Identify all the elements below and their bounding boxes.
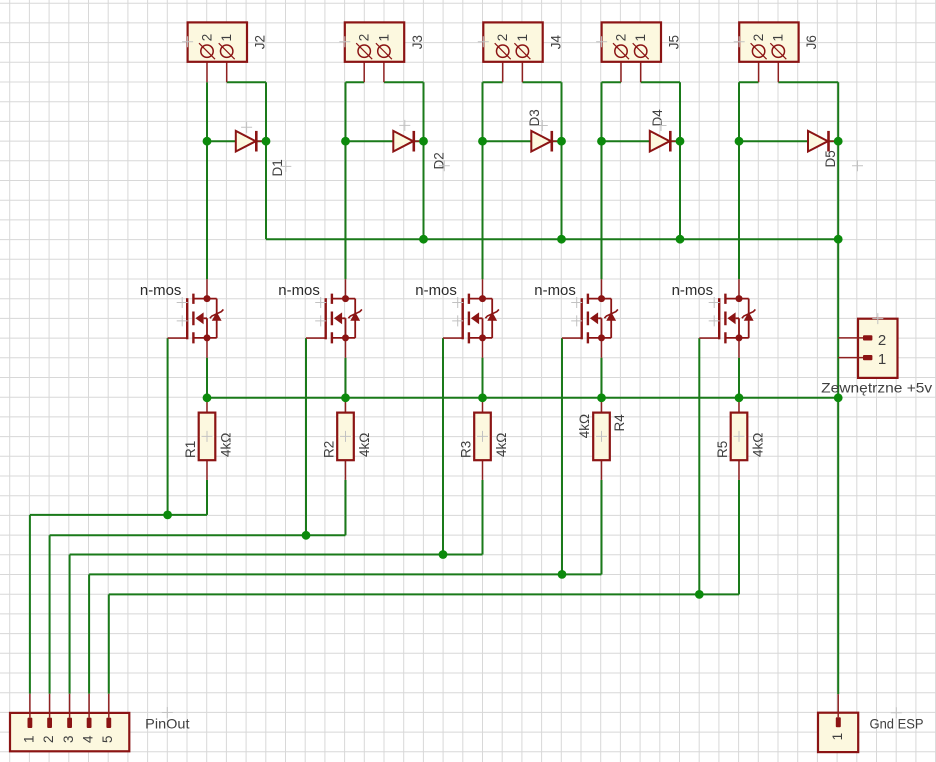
origin cross D3: [537, 120, 548, 131]
svg-text:J4: J4: [548, 35, 563, 50]
cross Q1: [177, 315, 188, 326]
origin cross PinOut: [162, 707, 173, 718]
wire J5 pin1 jog: [641, 81, 680, 83]
pin stub MOSFET source ckt D5: [738, 338, 740, 358]
svg-text:D4: D4: [650, 109, 665, 127]
wire MOSFET source to R5: [738, 358, 740, 398]
svg-text:4kΩ: 4kΩ: [494, 433, 509, 457]
wire J5 pin2 jog: [602, 81, 622, 83]
pin stub R2 top: [345, 398, 347, 413]
junction source/R3: [478, 393, 487, 402]
origin cross R5: [734, 431, 745, 442]
wire J6 pin2 jog: [739, 81, 759, 83]
diode D3: [531, 131, 561, 152]
pin stub R4 bottom: [601, 460, 603, 480]
junction D3 anode: [478, 137, 487, 146]
wire D5 anode row: [739, 140, 838, 142]
svg-text:R5: R5: [715, 441, 730, 458]
pin stub MOSFET source ckt D2: [345, 338, 347, 358]
wire J4 pin2 jog: [483, 81, 503, 83]
origin cross R4: [596, 431, 607, 442]
svg-text:D5: D5: [823, 150, 838, 167]
origin cross Gnd ESP: [891, 707, 902, 718]
wire gate net horizontal to PinOut: [30, 514, 207, 516]
resistor R2 4kΩ: [337, 413, 354, 461]
svg-text:4: 4: [81, 735, 96, 743]
connector PinOut: [10, 713, 129, 751]
svg-text:Zewnętrzne +5v: Zewnętrzne +5v: [821, 380, 932, 396]
junction gate net ckt R2: [302, 531, 311, 540]
svg-text:4kΩ: 4kΩ: [219, 433, 234, 457]
svg-text:2: 2: [495, 34, 510, 42]
origin cross Q3: [452, 297, 463, 308]
origin cross J4: [478, 36, 489, 47]
pin stub MOSFET gate ckt D4: [562, 337, 582, 339]
svg-text:1: 1: [21, 735, 36, 743]
junction D5 anode: [735, 137, 744, 146]
pin stub R1 top: [206, 398, 208, 413]
wire +5v bus: [266, 238, 838, 240]
wire MOSFET gate vertical: [442, 338, 444, 554]
wire R2 bottom vertical: [345, 480, 347, 535]
pin stub J4-1: [521, 62, 523, 82]
wire D1 cathode vertical to +5v bus: [265, 82, 267, 239]
origin cross R1: [202, 431, 213, 442]
cross Q5: [709, 315, 720, 326]
pin stub PinOut 3: [69, 694, 71, 718]
junction D4 anode: [597, 137, 606, 146]
terminal block J5: [602, 22, 661, 61]
svg-text:n-mos: n-mos: [140, 282, 182, 299]
terminal block J2: [188, 22, 247, 61]
svg-text:n-mos: n-mos: [534, 282, 576, 299]
pin stub MOSFET source ckt D4: [601, 338, 603, 358]
wire source rail to Zewnetrzne +5v: [207, 397, 838, 399]
pin stub J3-1: [383, 62, 385, 82]
pin stub MOSFET drain ckt D4: [601, 279, 603, 298]
wire MOSFET source to R3: [482, 358, 484, 398]
origin cross J5: [596, 36, 607, 47]
svg-text:1: 1: [830, 733, 845, 741]
terminal block J3: [345, 22, 404, 61]
svg-text:1: 1: [376, 34, 391, 42]
transistor Q4 n-mos: [582, 294, 618, 344]
resistor R4 4kΩ: [593, 413, 610, 461]
svg-text:R3: R3: [459, 441, 474, 458]
junction D2 anode: [341, 137, 350, 146]
pin stub J2-2: [206, 62, 208, 82]
connector Zewnetrzne +5v: [838, 319, 897, 378]
wire D2 anode row: [346, 140, 424, 142]
svg-text:n-mos: n-mos: [415, 282, 457, 299]
transistor Q1 n-mos: [187, 294, 223, 344]
origin cross D1: [241, 122, 252, 133]
origin cross D2: [399, 120, 410, 131]
pin stub MOSFET gate ckt D3: [443, 337, 463, 339]
pin stub MOSFET drain ckt D5: [738, 279, 740, 298]
junction D1 cathode: [262, 137, 271, 146]
wire MOSFET gate vertical: [561, 338, 563, 574]
junction bus D3: [557, 235, 566, 244]
junction source/R4: [597, 393, 606, 402]
wire J6 pin2 to D5 anode / MOSFET drain: [738, 82, 740, 279]
wire R5 bottom vertical: [738, 480, 740, 595]
wire J2 pin2 to D1 anode / MOSFET drain: [206, 82, 208, 279]
wire PinOut riser: [88, 574, 90, 693]
pin stub MOSFET source ckt D3: [482, 338, 484, 358]
pin stub R3 bottom: [482, 460, 484, 480]
diode D1: [236, 131, 266, 152]
pin stub J6-1: [777, 62, 779, 82]
svg-text:3: 3: [61, 735, 76, 743]
wire MOSFET source to R1: [206, 358, 208, 398]
svg-text:4kΩ: 4kΩ: [357, 433, 372, 457]
junction gate net ckt R1: [163, 511, 172, 520]
pin stub MOSFET drain ckt D2: [345, 279, 347, 298]
cross Q2: [315, 315, 326, 326]
wire gate net horizontal to PinOut: [109, 593, 739, 595]
pin stub R4 top: [601, 398, 603, 413]
origin cross J6: [734, 36, 745, 47]
resistor R5 4kΩ: [731, 413, 748, 461]
junction D5 cathode: [834, 137, 843, 146]
transistor Q3 n-mos: [463, 294, 499, 344]
wire J3 pin2 to D2 anode / MOSFET drain: [345, 82, 347, 279]
wire D4 cathode vertical to +5v bus: [679, 82, 681, 239]
wire J3 pin1 jog: [384, 81, 424, 83]
svg-text:D3: D3: [527, 109, 542, 126]
pin stub J6-2: [758, 62, 760, 82]
pin stub R5 bottom: [738, 460, 740, 480]
pin stub MOSFET gate ckt D5: [699, 337, 719, 339]
svg-text:1: 1: [219, 34, 234, 42]
svg-text:1: 1: [515, 34, 530, 42]
origin cross +5v connector: [872, 313, 883, 324]
svg-text:2: 2: [878, 332, 886, 349]
wire J4 pin1 jog: [522, 81, 561, 83]
junction bus D5: [834, 235, 843, 244]
resistor R3 4kΩ: [474, 413, 491, 461]
pin stub J5-1: [640, 62, 642, 82]
pin stub Gnd ESP: [837, 694, 839, 717]
transistor Q2 n-mos: [326, 294, 362, 344]
origin cross Q5: [709, 297, 720, 308]
svg-text:4kΩ: 4kΩ: [751, 433, 766, 457]
wire J5 pin2 to D4 anode / MOSFET drain: [601, 82, 603, 279]
origin cross J2: [182, 36, 193, 47]
svg-text:D1: D1: [270, 159, 285, 176]
junction bus D4: [676, 235, 685, 244]
pin stub R2 bottom: [345, 460, 347, 480]
wire MOSFET source to R2: [345, 358, 347, 398]
wire MOSFET source to R4: [601, 358, 603, 398]
origin cross J3: [339, 36, 350, 47]
junction source/R5: [735, 393, 744, 402]
wire MOSFET gate vertical: [698, 338, 700, 594]
origin cross Q4: [571, 297, 582, 308]
cross Q4: [571, 315, 582, 326]
origin cross Q2: [315, 297, 326, 308]
wire D4 anode row: [602, 140, 681, 142]
svg-text:2: 2: [199, 34, 214, 42]
diode D5: [808, 131, 838, 152]
value cross D2: [439, 160, 450, 171]
wire R1 bottom vertical: [206, 480, 208, 515]
wire right vertical bus to Gnd ESP: [837, 239, 839, 694]
junction source/R1: [203, 393, 212, 402]
junction bus D2: [419, 235, 428, 244]
junction D1 anode: [203, 137, 212, 146]
terminal block J4: [483, 22, 542, 61]
svg-text:5: 5: [100, 735, 115, 743]
pin stub MOSFET drain ckt D1: [206, 279, 208, 298]
pin stub MOSFET source ckt D1: [206, 338, 208, 358]
wire D2 cathode vertical to +5v bus: [423, 82, 425, 239]
wire J6 pin1 jog: [778, 81, 838, 83]
wire D3 anode row: [483, 140, 562, 142]
value cross D5: [852, 160, 863, 171]
value cross D1: [280, 161, 291, 172]
origin cross Q1: [177, 297, 188, 308]
pin stub MOSFET gate ckt D1: [168, 337, 188, 339]
terminal block J6: [739, 22, 798, 61]
svg-text:n-mos: n-mos: [278, 282, 320, 299]
svg-text:n-mos: n-mos: [672, 282, 714, 299]
svg-text:R1: R1: [183, 441, 198, 458]
wire R3 bottom vertical: [482, 480, 484, 555]
origin cross R2: [340, 431, 351, 442]
wire PinOut riser: [49, 535, 51, 694]
junction D4 cathode: [676, 137, 685, 146]
wire D3 cathode vertical to +5v bus: [561, 82, 563, 239]
pin stub PinOut 1: [29, 694, 31, 718]
svg-text:1: 1: [878, 351, 886, 368]
svg-text:4kΩ: 4kΩ: [577, 414, 592, 438]
junction D2 cathode: [419, 137, 428, 146]
diode D2: [393, 131, 423, 152]
pin stub MOSFET drain ckt D3: [482, 279, 484, 298]
wire J4 pin2 to D3 anode / MOSFET drain: [482, 82, 484, 279]
junction D3 cathode: [557, 137, 566, 146]
svg-text:J2: J2: [253, 35, 268, 49]
wire gate net horizontal to PinOut: [50, 534, 346, 536]
origin cross R3: [477, 431, 488, 442]
pin stub J3-2: [363, 62, 365, 82]
junction source/R2: [341, 393, 350, 402]
pin stub R3 top: [482, 398, 484, 413]
pin stub PinOut 2: [49, 694, 51, 718]
pin stub J2-1: [226, 62, 228, 82]
junction gate net ckt R4: [558, 570, 567, 579]
svg-text:J3: J3: [410, 35, 425, 49]
resistor R1 4kΩ: [199, 413, 216, 461]
junction gate net ckt R5: [695, 590, 704, 599]
svg-text:2: 2: [613, 34, 628, 42]
pin stub R1 bottom: [206, 460, 208, 480]
wire R4 bottom vertical: [601, 480, 603, 575]
svg-text:J5: J5: [667, 35, 682, 49]
junction gate net ckt R3: [439, 550, 448, 559]
wire PinOut riser: [108, 594, 110, 693]
wire J3 pin2 jog: [346, 81, 365, 83]
wire PinOut riser: [69, 555, 71, 694]
svg-text:1: 1: [633, 34, 648, 42]
svg-text:1: 1: [771, 34, 786, 42]
wire D1 anode row: [207, 140, 266, 142]
diode D4: [650, 131, 680, 152]
svg-text:J6: J6: [804, 35, 819, 49]
wire D5 cathode vertical to +5v bus: [837, 82, 839, 239]
svg-text:2: 2: [41, 735, 56, 743]
svg-text:2: 2: [357, 34, 372, 42]
pin stub PinOut 5: [108, 694, 110, 718]
connector Gnd ESP: [818, 713, 858, 752]
pin stub PinOut 4: [88, 694, 90, 718]
svg-text:R4: R4: [612, 414, 627, 432]
origin cross D4: [656, 120, 667, 131]
pin stub R5 top: [738, 398, 740, 413]
wire PinOut riser: [29, 515, 31, 694]
svg-text:R2: R2: [322, 441, 337, 458]
junction rail +5v connector: [834, 393, 843, 402]
cross Q3: [452, 315, 463, 326]
pin stub MOSFET gate ckt D2: [306, 337, 326, 339]
wire J2 pin1 jog: [227, 81, 266, 83]
svg-text:2: 2: [751, 34, 766, 42]
wire MOSFET gate vertical: [167, 338, 169, 515]
wire MOSFET gate vertical: [305, 338, 307, 535]
wire gate net horizontal to PinOut: [89, 573, 601, 575]
transistor Q5 n-mos: [719, 294, 755, 344]
pin stub J5-2: [620, 62, 622, 82]
wire gate net horizontal to PinOut: [70, 554, 483, 556]
pin stub J4-2: [502, 62, 504, 82]
